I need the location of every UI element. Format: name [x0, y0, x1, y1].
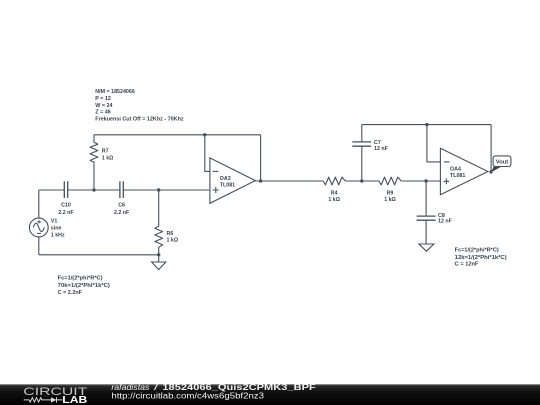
wire: feedback tap down to OA4 inverting input: [427, 125, 441, 162]
annotation: low cutoff formula text block: [58, 276, 110, 296]
svg-text:1 kΩ: 1 kΩ: [102, 156, 114, 162]
wire: bottom return wire V1 to R6: [39, 254, 159, 256]
node: feedback tap OA4: [425, 123, 428, 126]
capacitor C6 value label: [114, 203, 130, 216]
svg-text:R9: R9: [387, 190, 394, 196]
svg-text:OA3: OA3: [220, 176, 231, 182]
node Vout flag: [491, 156, 511, 172]
svg-text:LAB: LAB: [62, 395, 87, 405]
annotation: NIM parameter text block: [95, 89, 184, 122]
wire: R4 to R9 (node with C7): [345, 180, 379, 182]
svg-text:1 kΩ: 1 kΩ: [167, 238, 179, 244]
capacitor C10 value label: [58, 203, 74, 216]
resistor R6: [155, 190, 163, 255]
node: OA4 output / Vout junction: [489, 170, 492, 173]
wire: R9 to OA4 non-inverting input (node with C8): [401, 180, 440, 182]
node: junction R4/C7/R9: [360, 179, 363, 182]
wire: V1 positive lead up and across to C10: [39, 190, 65, 218]
resistor R9: [379, 177, 401, 185]
op-amp OA4 label: [450, 167, 465, 180]
voltage source V1 value label: [51, 219, 65, 239]
wire: feedback top wire OA3 (R7 top to output drop): [94, 134, 261, 136]
svg-text:12k=1/(2*Phi*1k*C): 12k=1/(2*Phi*1k*C): [455, 255, 507, 261]
svg-text:http://circuitlab.com/c4ws6g5b: http://circuitlab.com/c4ws6g5bf2nz3: [111, 391, 264, 400]
svg-text:TL081: TL081: [220, 182, 235, 188]
node: junction C10/R7/C6: [92, 188, 95, 191]
wire: output drop from top wire to OA4 output / Vout: [490, 125, 492, 172]
node: feedback tap OA3: [203, 133, 206, 136]
voltage source V1: [29, 218, 48, 237]
svg-text:Z = 46: Z = 46: [95, 110, 110, 116]
ground (below R6): [152, 255, 166, 270]
CircuitLab logo wordmark LAB: [62, 395, 87, 405]
capacitor C7 vertical leads: [361, 125, 363, 181]
svg-text:C = 12nF: C = 12nF: [455, 262, 479, 268]
svg-text:C = 2.2nF: C = 2.2nF: [58, 290, 83, 296]
node: junction R9/C8/OA4+: [424, 179, 427, 182]
wire: V1 negative lead down: [38, 237, 40, 255]
svg-text:Fc=1/(2*phi*R*C): Fc=1/(2*phi*R*C): [455, 248, 499, 254]
op-amp OA4: [440, 148, 488, 194]
resistor R7 label: [102, 148, 114, 161]
svg-text:sine: sine: [51, 226, 62, 232]
resistor R9 label: [384, 190, 396, 203]
svg-text:12 nF: 12 nF: [374, 146, 389, 152]
ground (below C8): [419, 220, 434, 251]
svg-text:R7: R7: [102, 148, 109, 154]
wire: C6 right plate to OA3 non-inverting input (node with R6): [123, 189, 210, 191]
svg-text:70k=1/(2*Phi*1k*C): 70k=1/(2*Phi*1k*C): [58, 283, 110, 289]
resistor R4: [323, 177, 345, 185]
wire: feedback top wire OA4 (C7 top to output drop): [362, 124, 491, 126]
capacitor C7 plates: [352, 142, 371, 146]
svg-text:1 kHz: 1 kHz: [51, 232, 65, 238]
node: OA3 output junction: [259, 179, 262, 182]
svg-text:R4: R4: [331, 190, 338, 196]
svg-text:P = 12: P = 12: [95, 96, 111, 102]
capacitor C8 value label: [438, 213, 453, 225]
wire: output drop from top wire to OA3 output: [260, 135, 262, 181]
wire: C10 right plate to C6 left plate (node with R7): [68, 189, 120, 191]
CircuitLab logo wordmark CIRCUIT: [23, 386, 87, 398]
capacitor C6: [120, 181, 123, 198]
resistor R4 label: [328, 190, 340, 203]
svg-text:OA4: OA4: [450, 167, 461, 173]
svg-text:1 kΩ: 1 kΩ: [328, 197, 340, 203]
footer: schematic url line: [111, 391, 264, 400]
svg-text:Vout: Vout: [496, 160, 509, 166]
svg-text:TL081: TL081: [450, 173, 465, 179]
svg-text:2.2 nF: 2.2 nF: [114, 210, 130, 216]
annotation: high cutoff formula text block: [455, 248, 507, 268]
node: junction C6/R6/OA3+: [157, 188, 160, 191]
capacitor C7 value label: [374, 140, 389, 152]
svg-text:C10: C10: [61, 203, 71, 209]
op-amp OA3 label: [220, 176, 235, 189]
footer: schematic title line: [111, 383, 316, 392]
svg-text:NIM = 18524066: NIM = 18524066: [95, 89, 135, 95]
svg-text:2.2 nF: 2.2 nF: [58, 210, 74, 216]
svg-text:R6: R6: [167, 231, 174, 237]
capacitor C8 plates: [417, 216, 436, 220]
capacitor C8 lead from node: [425, 181, 427, 216]
resistor R6 label: [167, 231, 179, 244]
node: junction bottom wire / R6 / ground: [157, 253, 160, 256]
CircuitLab logo wire with resistor and diode: [24, 397, 63, 402]
svg-text:W = 24: W = 24: [95, 103, 112, 109]
svg-text:C6: C6: [118, 203, 125, 209]
capacitor C10: [64, 181, 67, 198]
svg-text:Frekuensi Cut Off = 12Khz - 70: Frekuensi Cut Off = 12Khz - 70Khz: [95, 117, 184, 123]
resistor R7: [90, 135, 98, 190]
svg-text:12 nF: 12 nF: [438, 219, 453, 225]
wire: OA3 output to R4: [255, 180, 323, 182]
op-amp OA3: [210, 158, 256, 203]
wire: feedback tap down to OA3 inverting input: [205, 135, 210, 172]
svg-text:V1: V1: [51, 219, 58, 225]
svg-text:1 kΩ: 1 kΩ: [384, 197, 396, 203]
svg-text:Fc=1/(2*phi*R*C): Fc=1/(2*phi*R*C): [58, 276, 103, 282]
